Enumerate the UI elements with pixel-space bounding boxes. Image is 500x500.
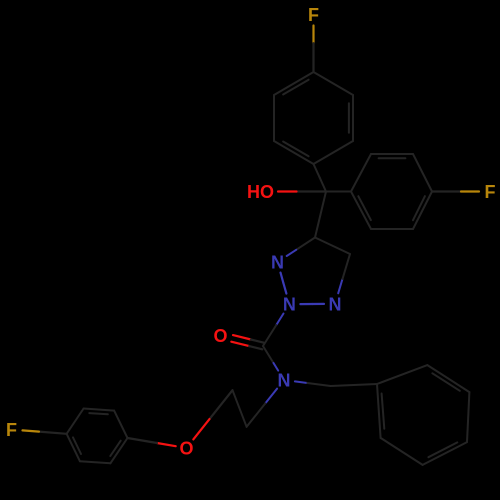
svg-text:F: F bbox=[308, 5, 319, 25]
bond amide N-benzyl CH2 bbox=[295, 381, 331, 386]
bond CH2a-CH2b bbox=[233, 390, 247, 427]
bottom-left 4-fluorophenyl ring bbox=[67, 409, 128, 464]
bond right ring C4-F(right) bbox=[432, 190, 479, 192]
carbonyl C=O double bond bbox=[231, 335, 263, 349]
triazole bond C5-C4 bbox=[315, 238, 350, 255]
svg-text:F: F bbox=[485, 182, 496, 202]
bond carbonyl C-amide N bbox=[263, 346, 278, 371]
right 4-fluorophenyl ring bbox=[351, 154, 432, 229]
bond carbinol C-triazole C4 bbox=[315, 192, 326, 238]
bond triazole N2-carbonyl C bbox=[263, 314, 284, 347]
bond CH2b-ether O bbox=[193, 390, 232, 439]
bond F(top)-C1 of top ring bbox=[312, 26, 314, 73]
svg-text:O: O bbox=[213, 326, 227, 346]
svg-text:N: N bbox=[329, 294, 342, 314]
triazole bond N2-N3 bbox=[300, 303, 324, 305]
triazole bond C4-N1 bbox=[287, 238, 315, 257]
triazole bond N3-C5 bbox=[338, 254, 350, 293]
bond bottom ring C4-F(left) bbox=[23, 430, 67, 433]
svg-text:N: N bbox=[283, 295, 296, 315]
svg-text:HO: HO bbox=[247, 182, 274, 202]
bond carbinol C-right ring C1 bbox=[326, 191, 351, 193]
svg-text:N: N bbox=[271, 253, 284, 273]
bond benzyl CH2-phenyl C1 bbox=[331, 384, 377, 386]
svg-text:N: N bbox=[278, 371, 291, 391]
bond carbinol C-O of HO bbox=[278, 190, 326, 192]
bond ether O-bottom ring C1 bbox=[128, 438, 176, 446]
bond top ring C4-carbinol C bbox=[314, 164, 327, 192]
top 4-fluorophenyl ring bbox=[274, 72, 353, 164]
benzyl phenyl ring bbox=[377, 365, 469, 465]
triazole bond N1-N2 bbox=[281, 273, 287, 294]
svg-text:F: F bbox=[6, 420, 17, 440]
bond amide N-ethyl CH2a bbox=[247, 389, 278, 427]
svg-text:O: O bbox=[179, 439, 193, 459]
